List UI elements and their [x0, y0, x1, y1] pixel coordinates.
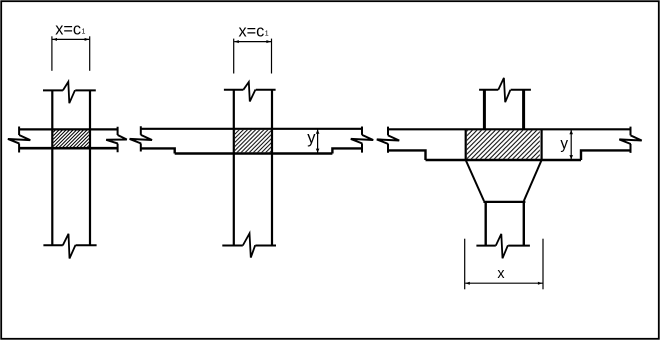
fig3 y dimension line [570, 130, 572, 159]
fig1 slab top line [19, 128, 118, 130]
fig3 upper column right line [522, 90, 525, 130]
fig1 dimension arrow right [85, 38, 90, 41]
fig1 slab right break bolt [106, 135, 127, 144]
fig2 y dimension line [317, 130, 319, 153]
fig1 dimension line [52, 38, 89, 40]
fig2 column left line [233, 90, 235, 246]
fig3 hatch left edge line [465, 129, 467, 160]
fig3 slab right cut line [630, 127, 632, 153]
fig1 dimension arrow left [52, 38, 57, 41]
fig2 column top break bolt [243, 82, 255, 102]
fig2 slab bottom profile with drop panel [141, 148, 362, 153]
fig3 x dimension arrow left [465, 282, 470, 285]
fig3 capital right slant line [524, 160, 542, 201]
fig1 column bottom break bolt [63, 234, 76, 259]
fig3 y dimension text [560, 136, 568, 153]
fig3 slab top line [388, 128, 631, 130]
fig2 column bottom cut line [222, 245, 276, 247]
fig3 slab right break bolt [619, 135, 641, 144]
fig2 column bottom break bolt [243, 233, 255, 257]
fig3 capital left slant line [466, 160, 484, 201]
fig2 y dimension arrow top [316, 130, 320, 134]
fig3 column top cut line [479, 89, 531, 91]
fig1 slab left break bolt [8, 135, 30, 144]
fig3 x dimension arrow right [538, 282, 543, 285]
fig2 slab right cut line [361, 127, 363, 153]
fig3 slab bottom profile with drop panel [388, 150, 631, 160]
fig1 column top cut line [43, 89, 96, 91]
fig1 column right line [89, 90, 91, 245]
fig3 x dimension extension line right [542, 239, 544, 290]
fig1 column bottom cut line [43, 244, 96, 246]
fig1 slab left cut line [18, 127, 20, 153]
fig2 y dimension arrow bottom [316, 149, 320, 153]
svg-text:x=c1: x=c1 [239, 23, 269, 41]
fig1 column top break bolt [63, 82, 75, 103]
fig2 dimension extension line right [271, 39, 273, 74]
fig3 x dimension line [465, 282, 542, 284]
fig2 slab left break bolt [130, 135, 152, 144]
fig1 dimension extension line left [51, 36, 53, 71]
fig2 column top cut line [224, 89, 276, 91]
fig3 column bottom break bolt [496, 234, 508, 258]
fig3 column top break bolt [498, 78, 510, 102]
fig1 dimension extension line right [89, 36, 91, 71]
fig3 column bottom cut line [476, 245, 530, 247]
svg-text:x: x [497, 266, 504, 282]
fig3 slab left break bolt [377, 135, 399, 144]
fig3 slab left cut line [387, 127, 389, 153]
svg-text:y: y [307, 129, 316, 147]
fig2 y dimension text [307, 129, 316, 147]
svg-text:y: y [560, 136, 568, 153]
fig2 column right line [271, 90, 273, 246]
fig1 dimension text x=c1 [55, 21, 85, 39]
fig3 x dimension extension line left [464, 239, 466, 290]
svg-text:x=c1: x=c1 [55, 21, 85, 39]
fig3 x dimension text [497, 266, 504, 282]
fig3 y dimension arrow top [569, 130, 573, 134]
fig1 hatched column/slab intersection [53, 131, 89, 148]
fig2 dimension line [234, 41, 271, 43]
fig2 dimension text x=c1 [239, 23, 269, 41]
fig3 y dimension arrow bottom [569, 155, 573, 159]
fig2 slab left cut line [140, 126, 142, 151]
fig2 dimension extension line left [233, 39, 235, 74]
fig1 column left line [51, 90, 53, 245]
fig3 capital bottom line [483, 201, 525, 203]
fig3 hatch right edge line [540, 129, 542, 160]
fig2 slab top line [141, 128, 362, 130]
fig3 lower column left line [485, 202, 487, 246]
fig2 hatched column/slab intersection [235, 130, 271, 152]
fig3 lower column right line [523, 202, 525, 246]
fig2 dimension arrow left [234, 40, 239, 43]
fig1 slab right cut line [117, 127, 119, 153]
fig3 upper column left line [483, 90, 486, 130]
fig2 slab right break bolt [351, 135, 373, 144]
fig2 dimension arrow right [266, 40, 271, 43]
fig3 hatched intersection area [467, 130, 540, 159]
fig1 slab bottom line [19, 147, 118, 150]
